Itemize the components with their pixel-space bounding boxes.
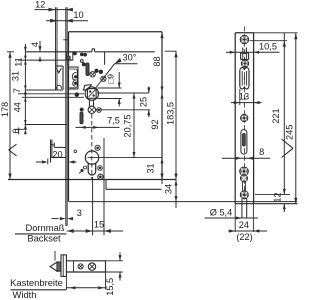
- latch bottom line: [25, 89, 63, 91]
- dimension 13: [239, 89, 241, 105]
- extension lines for 15 dim: [92, 177, 94, 235]
- follower cam nose: [83, 85, 91, 91]
- dimension 183.5 line: [175, 51, 177, 179]
- svg-text:Kastenbreite: Kastenbreite: [10, 277, 63, 288]
- square 9 dimension line and arrows: [118, 72, 120, 88]
- bottom tab line inner: [106, 188, 162, 190]
- square 9 dimension extension lines: [98, 87, 122, 89]
- faceplate front view outline: [234, 33, 236, 204]
- latch head V notch: [56, 68, 61, 73]
- line for 6 bottom: [14, 128, 27, 130]
- svg-text:25: 25: [138, 97, 148, 107]
- latch housing in case: [68, 67, 78, 89]
- dimension 221 line: [283, 33, 285, 186]
- pin dot left of follower: [75, 93, 79, 97]
- svg-text:221: 221: [271, 108, 281, 123]
- cylinder fixing screw lower: [241, 175, 248, 182]
- dimension 20 deadbolt throw: [36, 161, 42, 163]
- svg-text:24: 24: [239, 220, 249, 230]
- latch spring curl: [72, 72, 76, 80]
- svg-text:7,5: 7,5: [107, 115, 120, 125]
- svg-text:12: 12: [272, 192, 282, 202]
- left chain dimension line 11-31-7-44: [24, 44, 26, 129]
- svg-text:20: 20: [52, 149, 62, 159]
- latch window upper: [242, 48, 244, 54]
- release screw below follower: [88, 106, 95, 113]
- faceplate (side view, 3mm strip): [65, 7, 67, 225]
- follower nut circle: [85, 87, 98, 100]
- latch tip extension lines: [55, 7, 57, 90]
- dimension 24 line: [228, 230, 267, 232]
- slot inner lines: [241, 71, 243, 86]
- svg-text:7: 7: [12, 88, 22, 93]
- svg-text:178: 178: [0, 102, 10, 117]
- cylinder screw right low: [98, 174, 103, 179]
- follower hatch detail: [89, 90, 96, 97]
- break chevron on 245 line: [282, 139, 294, 148]
- extension of top line for 183.5 dim: [165, 50, 177, 52]
- dimension 8: [222, 157, 270, 159]
- dimension 178 line: [9, 52, 11, 180]
- spring slot (dark): [86, 63, 89, 76]
- extension line 44 bottom: [25, 124, 67, 126]
- svg-text:10: 10: [73, 10, 83, 20]
- filled pin dot b: [99, 70, 103, 74]
- pin dot left of release: [80, 108, 83, 111]
- top fixing screw: [240, 35, 248, 43]
- svg-text:31: 31: [10, 71, 20, 81]
- svg-text:3: 3: [77, 208, 82, 218]
- svg-text:11: 11: [13, 57, 23, 67]
- rivet dot right of aux latch: [73, 52, 76, 55]
- dimension 4 (aux latch): [39, 41, 41, 52]
- case inner top line with notch: [25, 51, 92, 53]
- small pins left of cylinder: [84, 166, 87, 169]
- extension line cylinder centre to right dims: [88, 157, 163, 159]
- extension line below latch 2: [22, 96, 84, 98]
- latch head bottom bump: [56, 85, 61, 89]
- extension line follower centre right: [97, 92, 149, 94]
- extension line below latch 1: [18, 93, 84, 95]
- bottom view screw large: [88, 263, 95, 270]
- svg-text:15: 15: [94, 219, 104, 229]
- dimension 10.5 leader: [226, 51, 280, 53]
- svg-text:88: 88: [152, 56, 162, 66]
- dark detail below aux latch: [67, 62, 69, 65]
- bottom view latch tip: [50, 262, 57, 271]
- internal wall below top line: [104, 52, 106, 65]
- svg-text:92: 92: [150, 119, 160, 129]
- svg-text:44: 44: [13, 102, 23, 112]
- cylinder screw right middle: [98, 166, 103, 171]
- cylinder fixing screw upper: [240, 167, 249, 176]
- svg-text:Width: Width: [13, 289, 37, 300]
- cylinder screw top right: [95, 145, 100, 150]
- elongated screw slot: [241, 130, 247, 155]
- screw with cross below window: [241, 60, 248, 67]
- screw with cross mid plate: [241, 114, 248, 121]
- dimension 7.5 line with arrows: [76, 126, 120, 128]
- lock case outline: [69, 31, 163, 33]
- follower square hole: [87, 89, 96, 99]
- dimension 20.75 line: [133, 93, 135, 158]
- latch tip alignment tick: [54, 251, 56, 261]
- dimension 25 line: [148, 87, 150, 94]
- svg-text:20,75: 20,75: [123, 115, 133, 138]
- rule under Kastenbreite: [11, 289, 67, 291]
- svg-text:34: 34: [163, 184, 173, 194]
- dimension 31 right: [161, 158, 164, 164]
- svg-text:31: 31: [146, 163, 156, 173]
- underline leader of diameter label: [205, 217, 259, 219]
- svg-text:30°: 30°: [123, 53, 137, 63]
- dimension 88 line: [160, 32, 163, 38]
- dimension 92: [161, 93, 164, 99]
- faceplate section tick: [63, 39, 68, 41]
- dimension 12 right view: [283, 186, 285, 194]
- slot 2 (dark, lower left): [80, 112, 83, 124]
- deadbolt thrown outline: [50, 140, 52, 163]
- latch head box: [56, 65, 64, 67]
- auxiliary latch bottom line: [18, 59, 73, 61]
- dimension 245 line: [295, 33, 297, 204]
- faceplate top edge extension for 245: [254, 32, 298, 34]
- rule under Dornmass: [15, 233, 67, 235]
- bottom view case outline: [66, 260, 105, 262]
- bottom view faceplate bar: [61, 255, 66, 277]
- bottom view screw with cross: [78, 264, 83, 269]
- case depth dimension under bottom view: [65, 276, 67, 289]
- pin ring right of release: [97, 108, 102, 113]
- extension line screw centre for 221: [250, 40, 288, 42]
- bottom tab lower edge long extension line: [69, 201, 298, 203]
- vertical centreline dashed: [243, 27, 245, 202]
- bolt slot with curved ends: [239, 70, 241, 86]
- vertical centreline through cylinder (dashed): [91, 114, 93, 180]
- dimension 3 faceplate thickness: [52, 218, 59, 220]
- dimension 10 label and line: [46, 20, 88, 22]
- svg-text:Dornmaß: Dornmaß: [25, 222, 64, 233]
- svg-text:12: 12: [35, 0, 45, 9]
- small pins below aux latch: [80, 60, 83, 63]
- svg-text:15,5: 15,5: [105, 278, 115, 296]
- 30 degree leader line with arrow: [95, 64, 115, 90]
- dimension 34: [175, 180, 178, 186]
- follower stem: [88, 100, 90, 106]
- screw hole edge extension lines: [241, 199, 243, 218]
- svg-text:(22): (22): [236, 232, 252, 242]
- filled pin dot a: [95, 69, 98, 72]
- dimension 15.5: [106, 260, 123, 262]
- rivet dots on inner top line: [80, 53, 83, 56]
- extension line release centre: [96, 109, 150, 111]
- screw with cross right: [101, 76, 106, 81]
- svg-text:Backset: Backset: [27, 233, 61, 244]
- pin right of deadbolt: [74, 150, 77, 153]
- svg-text:Ø 5,4: Ø 5,4: [210, 207, 232, 217]
- backset dimension line with 15: [67, 230, 123, 232]
- extension line bottom screw centre: [255, 193, 290, 195]
- svg-text:10,5: 10,5: [259, 42, 277, 52]
- auxiliary latch block: [66, 52, 73, 60]
- svg-text:□9: □9: [106, 74, 116, 84]
- svg-text:13: 13: [239, 92, 249, 102]
- tick for 178 top: [7, 51, 14, 53]
- svg-text:8: 8: [259, 147, 264, 157]
- bottom view internal wall: [73, 261, 75, 272]
- faceplate bottom edge: [235, 203, 297, 205]
- svg-text:4: 4: [30, 42, 40, 47]
- svg-text:245: 245: [284, 125, 294, 140]
- break chevron on 178 line: [9, 144, 17, 150]
- euro cylinder profile: [85, 151, 98, 164]
- extension lines for 24: [234, 204, 236, 232]
- connector to bottom screw: [242, 182, 244, 191]
- bottom screw hole 5.4: [240, 191, 248, 199]
- svg-text:183,5: 183,5: [166, 102, 176, 125]
- dimension 12 (latch projection) label and line: [35, 9, 74, 11]
- screw with cross left of follower top: [90, 72, 95, 77]
